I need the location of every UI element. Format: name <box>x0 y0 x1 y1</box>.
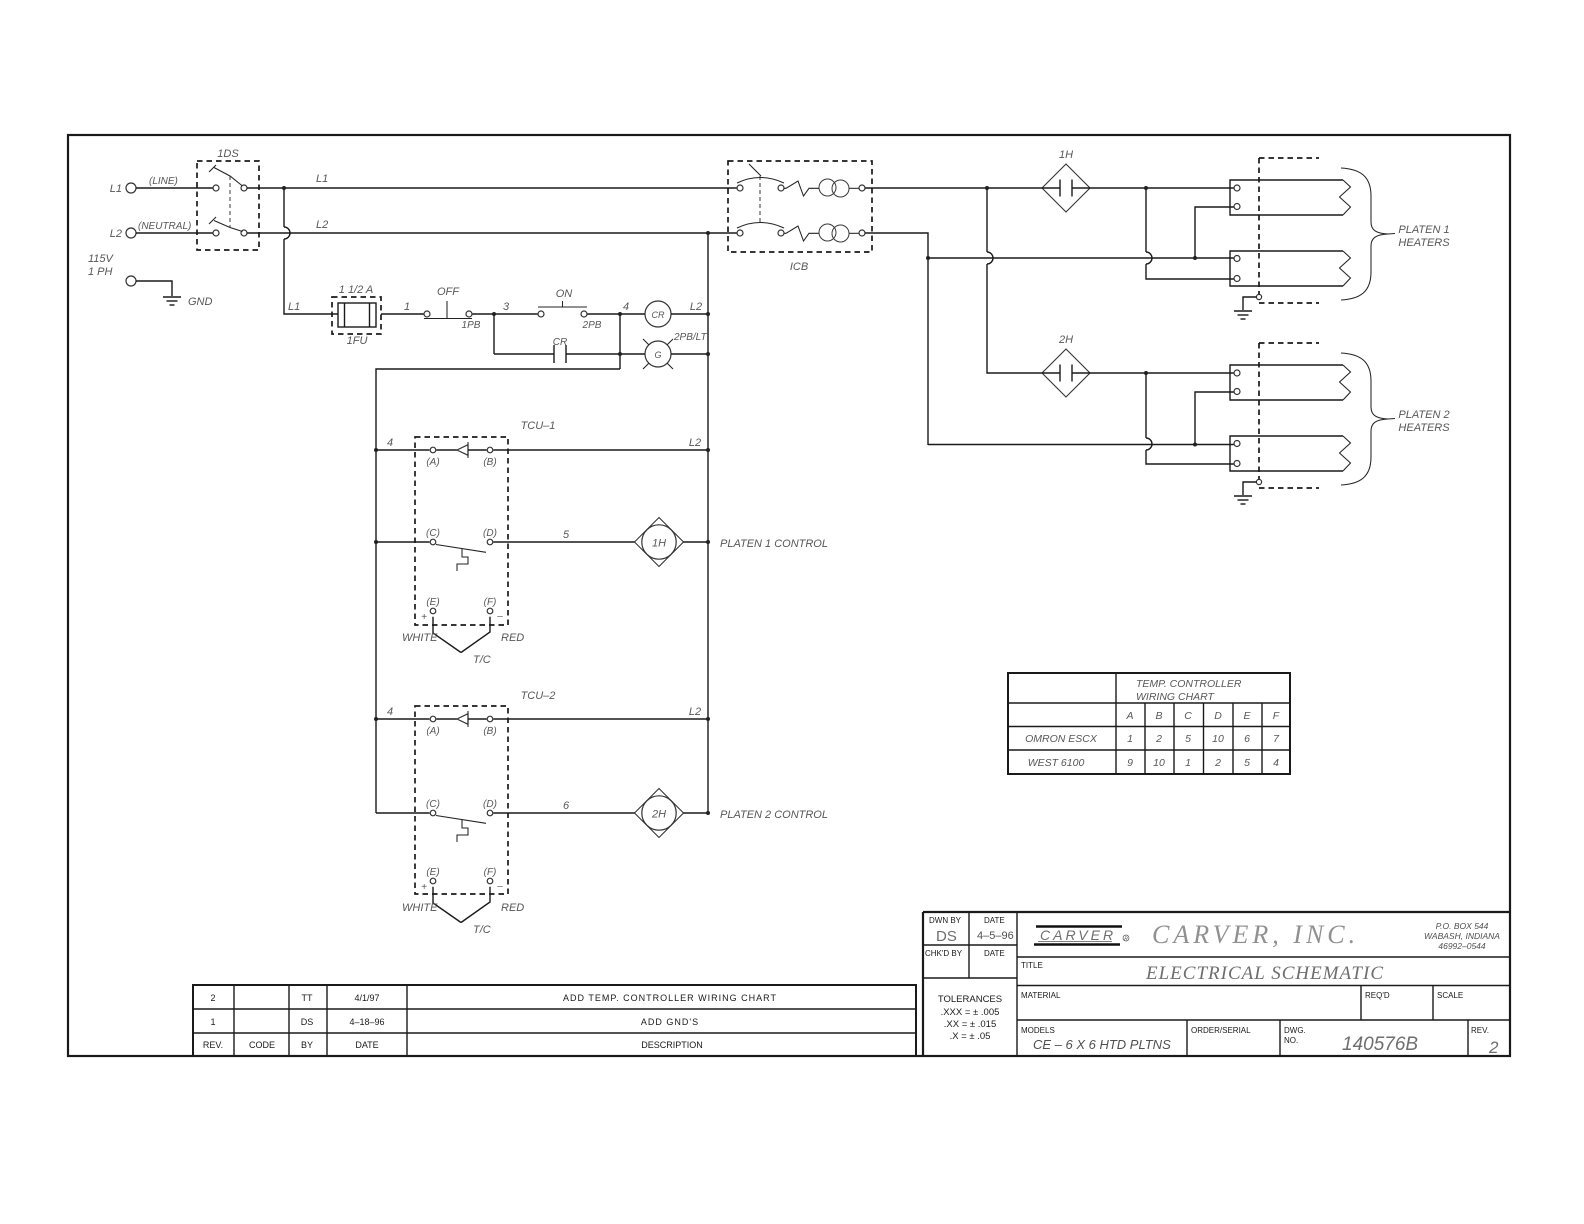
svg-text:DATE: DATE <box>984 916 1005 925</box>
svg-text:5: 5 <box>1244 757 1250 769</box>
svg-text:4: 4 <box>387 437 393 449</box>
svg-text:DS: DS <box>936 928 957 945</box>
svg-text:DWN BY: DWN BY <box>929 916 962 925</box>
svg-text:1: 1 <box>210 1017 215 1027</box>
svg-text:CARVER, INC.: CARVER, INC. <box>1152 920 1359 949</box>
svg-text:5: 5 <box>1185 733 1191 745</box>
svg-text:46992–0544: 46992–0544 <box>1438 941 1486 951</box>
svg-text:1: 1 <box>1185 757 1191 769</box>
svg-text:D: D <box>1214 710 1222 722</box>
svg-text:(F): (F) <box>484 867 497 878</box>
svg-text:WIRING CHART: WIRING CHART <box>1136 691 1216 703</box>
svg-text:L2: L2 <box>110 228 122 240</box>
svg-text:CARVER: CARVER <box>1040 927 1116 943</box>
svg-text:DS: DS <box>301 1017 314 1027</box>
svg-text:DATE: DATE <box>355 1040 378 1050</box>
svg-text:1DS: 1DS <box>217 148 239 160</box>
svg-text:+: + <box>421 612 427 623</box>
svg-text:L1: L1 <box>110 183 122 195</box>
svg-text:OFF: OFF <box>437 286 460 298</box>
svg-text:MATERIAL: MATERIAL <box>1021 991 1061 1000</box>
svg-text:ORDER/SERIAL: ORDER/SERIAL <box>1191 1026 1251 1035</box>
svg-text:1H: 1H <box>652 538 666 550</box>
svg-text:WHITE: WHITE <box>402 632 438 644</box>
svg-text:(D): (D) <box>483 528 497 539</box>
svg-text:L2: L2 <box>690 301 702 313</box>
svg-text:BY: BY <box>301 1040 313 1050</box>
svg-text:1H: 1H <box>1059 149 1073 161</box>
svg-text:1FU: 1FU <box>347 335 368 347</box>
svg-text:4–18–96: 4–18–96 <box>349 1017 384 1027</box>
svg-text:L2: L2 <box>689 706 701 718</box>
svg-text:L2: L2 <box>316 219 328 231</box>
svg-text:2: 2 <box>210 993 215 1003</box>
svg-text:P.O. BOX 544: P.O. BOX 544 <box>1436 921 1489 931</box>
svg-text:E: E <box>1243 710 1251 722</box>
svg-text:GND: GND <box>188 296 213 308</box>
svg-text:RED: RED <box>501 902 524 914</box>
svg-text:WABASH, INDIANA: WABASH, INDIANA <box>1424 931 1500 941</box>
svg-text:4: 4 <box>1273 757 1279 769</box>
svg-text:CE – 6 X 6 HTD PLTNS: CE – 6 X 6 HTD PLTNS <box>1033 1037 1171 1052</box>
svg-text:A: A <box>1125 710 1133 722</box>
svg-text:9: 9 <box>1127 757 1133 769</box>
svg-text:B: B <box>1155 710 1162 722</box>
svg-text:WEST 6100: WEST 6100 <box>1028 757 1085 769</box>
svg-text:ADD GND'S: ADD GND'S <box>641 1017 699 1027</box>
svg-text:(NEUTRAL): (NEUTRAL) <box>138 221 191 232</box>
svg-text:NO.: NO. <box>1284 1036 1298 1045</box>
svg-text:1 1/2 A: 1 1/2 A <box>339 284 373 296</box>
svg-text:F: F <box>1273 710 1280 722</box>
svg-text:1PB: 1PB <box>462 320 481 331</box>
svg-text:TCU–1: TCU–1 <box>521 420 556 432</box>
svg-text:115V: 115V <box>88 253 115 265</box>
svg-text:2: 2 <box>1155 733 1162 745</box>
svg-text:140576B: 140576B <box>1342 1034 1418 1055</box>
svg-text:(B): (B) <box>483 457 496 468</box>
svg-text:6: 6 <box>563 800 570 812</box>
svg-text:ICB: ICB <box>790 261 808 273</box>
svg-text:(C): (C) <box>426 528 440 539</box>
svg-text:2: 2 <box>1488 1038 1499 1057</box>
svg-text:.XXX = ± .005: .XXX = ± .005 <box>941 1007 1000 1018</box>
svg-text:REQ'D: REQ'D <box>1365 991 1390 1000</box>
svg-text:4–5–96: 4–5–96 <box>977 930 1014 942</box>
svg-text:(E): (E) <box>426 597 439 608</box>
svg-text:L2: L2 <box>689 437 701 449</box>
svg-text:1: 1 <box>404 301 410 313</box>
svg-text:2H: 2H <box>1058 334 1073 346</box>
svg-text:4/1/97: 4/1/97 <box>354 993 379 1003</box>
svg-text:TEMP. CONTROLLER: TEMP. CONTROLLER <box>1136 678 1242 690</box>
svg-text:ADD TEMP. CONTROLLER WIRING: ADD TEMP. CONTROLLER WIRING CHART <box>563 993 777 1003</box>
svg-text:(E): (E) <box>426 867 439 878</box>
svg-text:TOLERANCES: TOLERANCES <box>938 994 1002 1005</box>
svg-text:4: 4 <box>623 301 629 313</box>
svg-text:PLATEN 1 CONTROL: PLATEN 1 CONTROL <box>720 538 828 550</box>
svg-text:RED: RED <box>501 632 524 644</box>
svg-text:2PB: 2PB <box>582 320 602 331</box>
svg-text:MODELS: MODELS <box>1021 1026 1055 1035</box>
svg-text:2PB/LT: 2PB/LT <box>673 332 707 343</box>
svg-text:G: G <box>654 350 661 360</box>
svg-text:REV.: REV. <box>1471 1026 1489 1035</box>
svg-text:2H: 2H <box>651 809 666 821</box>
svg-text:CODE: CODE <box>249 1040 275 1050</box>
svg-text:(A): (A) <box>426 726 439 737</box>
svg-text:OMRON ESCX: OMRON ESCX <box>1025 733 1098 745</box>
svg-text:6: 6 <box>1244 733 1250 745</box>
svg-text:WHITE: WHITE <box>402 902 438 914</box>
svg-text:10: 10 <box>1153 757 1165 769</box>
svg-text:DESCRIPTION: DESCRIPTION <box>641 1040 703 1050</box>
svg-text:CR: CR <box>652 310 665 320</box>
svg-text:TCU–2: TCU–2 <box>521 690 556 702</box>
svg-text:(F): (F) <box>484 597 497 608</box>
svg-text:PLATEN 2: PLATEN 2 <box>1398 409 1449 421</box>
svg-text:(C): (C) <box>426 799 440 810</box>
svg-text:–: – <box>496 611 503 622</box>
svg-text:T/C: T/C <box>473 924 491 936</box>
svg-text:C: C <box>1184 710 1192 722</box>
svg-text:.XX = ± .015: .XX = ± .015 <box>944 1019 996 1030</box>
svg-text:4: 4 <box>387 706 393 718</box>
svg-text:HEATERS: HEATERS <box>1398 237 1450 249</box>
svg-text:SCALE: SCALE <box>1437 991 1463 1000</box>
svg-text:TITLE: TITLE <box>1021 961 1043 970</box>
svg-text:1 PH: 1 PH <box>88 266 113 278</box>
svg-text:ELECTRICAL SCHEMATIC: ELECTRICAL SCHEMATIC <box>1145 963 1384 984</box>
svg-text:10: 10 <box>1212 733 1224 745</box>
svg-text:PLATEN 2 CONTROL: PLATEN 2 CONTROL <box>720 809 828 821</box>
svg-text:+: + <box>421 882 427 893</box>
svg-text:(A): (A) <box>426 457 439 468</box>
svg-text:REV.: REV. <box>203 1040 223 1050</box>
svg-text:L1: L1 <box>316 173 328 185</box>
svg-text:.X = ± .05: .X = ± .05 <box>950 1031 991 1042</box>
svg-text:HEATERS: HEATERS <box>1398 422 1450 434</box>
svg-text:CHK'D BY: CHK'D BY <box>925 949 963 958</box>
svg-text:(LINE): (LINE) <box>149 176 178 187</box>
svg-text:ON: ON <box>556 288 573 300</box>
svg-text:DATE: DATE <box>984 949 1005 958</box>
svg-text:2: 2 <box>1214 757 1221 769</box>
svg-text:(D): (D) <box>483 799 497 810</box>
svg-text:3: 3 <box>503 301 510 313</box>
svg-text:5: 5 <box>563 529 570 541</box>
svg-text:R: R <box>1124 937 1128 943</box>
svg-text:–: – <box>496 881 503 892</box>
svg-text:TT: TT <box>302 993 313 1003</box>
svg-text:PLATEN 1: PLATEN 1 <box>1398 224 1449 236</box>
svg-text:T/C: T/C <box>473 654 491 666</box>
svg-text:(B): (B) <box>483 726 496 737</box>
svg-text:CR: CR <box>553 337 567 348</box>
svg-text:1: 1 <box>1127 733 1133 745</box>
svg-text:DWG.: DWG. <box>1284 1026 1306 1035</box>
svg-text:L1: L1 <box>288 301 300 313</box>
